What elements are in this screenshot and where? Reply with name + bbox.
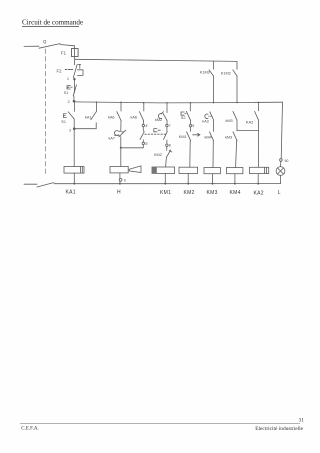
svg-text:H: H: [117, 190, 121, 196]
svg-text:7: 7: [169, 124, 171, 128]
svg-text:8: 8: [169, 144, 171, 148]
svg-text:Q: Q: [43, 39, 47, 44]
svg-text:KA2: KA2: [254, 190, 264, 196]
svg-text:S1: S1: [64, 91, 69, 95]
svg-text:S1: S1: [61, 120, 66, 124]
svg-text:kA7: kA7: [109, 136, 116, 140]
svg-text:kA2: kA2: [202, 120, 209, 124]
svg-text:2: 2: [68, 100, 70, 104]
svg-text:Electricité industrielle: Electricité industrielle: [255, 426, 303, 432]
svg-text:kM3: kM3: [226, 119, 233, 123]
svg-text:kA6: kA6: [108, 116, 115, 120]
svg-text:F2: F2: [57, 69, 63, 74]
svg-text:KM4: KM4: [230, 190, 241, 196]
svg-text:KM3: KM3: [207, 190, 218, 196]
svg-text:K1M3: K1M3: [200, 71, 210, 75]
svg-text:F1: F1: [61, 51, 67, 56]
svg-text:6: 6: [124, 178, 126, 182]
svg-text:Circuit de commande: Circuit de commande: [22, 19, 83, 27]
svg-text:KM2: KM2: [184, 190, 195, 196]
svg-text:KM1: KM1: [160, 190, 171, 196]
svg-text:1: 1: [67, 77, 69, 81]
svg-text:kM3: kM3: [225, 135, 232, 139]
svg-text:60: 60: [285, 159, 289, 163]
svg-text:KA2: KA2: [246, 120, 254, 125]
svg-text:K1M2: K1M2: [221, 72, 231, 76]
svg-text:kA1: kA1: [85, 116, 92, 120]
svg-text:3: 3: [69, 129, 71, 133]
svg-text:C.E.F.A.: C.E.F.A.: [21, 427, 38, 432]
svg-text:4': 4': [145, 124, 148, 128]
svg-text:31: 31: [299, 418, 305, 424]
svg-text:kA6: kA6: [131, 116, 138, 120]
svg-text:S2: S2: [181, 116, 186, 120]
svg-text:KM1: KM1: [179, 135, 187, 139]
svg-text:L: L: [278, 190, 281, 196]
svg-text:KA1: KA1: [66, 189, 76, 195]
svg-text:5': 5': [145, 142, 148, 146]
svg-text:kM4: kM4: [205, 135, 212, 139]
svg-text:KM2: KM2: [154, 153, 162, 157]
svg-text:kM2: kM2: [155, 118, 162, 122]
svg-text:9: 9: [192, 124, 194, 128]
